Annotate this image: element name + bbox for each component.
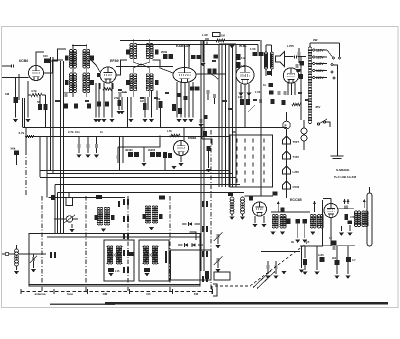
svg-text:56k: 56k <box>11 147 16 151</box>
svg-text:1n: 1n <box>100 130 103 134</box>
svg-text:P+C L8B AA-FM: P+C L8B AA-FM <box>334 175 357 179</box>
svg-text:140V: 140V <box>316 62 325 66</box>
svg-text:L.08: L.08 <box>202 33 208 37</box>
svg-text:1M: 1M <box>5 92 10 96</box>
svg-text:110V: 110V <box>316 49 324 53</box>
svg-text:S-M02HE: S-M02HE <box>336 168 349 172</box>
svg-text:2k2: 2k2 <box>332 257 337 260</box>
svg-text:1M: 1M <box>140 99 144 103</box>
svg-text:2.7k: 2.7k <box>68 130 74 134</box>
svg-text:L7b: L7b <box>167 129 172 133</box>
svg-text:27k: 27k <box>114 96 119 100</box>
svg-text:1k8: 1k8 <box>122 90 127 94</box>
svg-text:C500: C500 <box>293 185 300 189</box>
svg-text:ECC85: ECC85 <box>290 198 302 202</box>
svg-text:FM: FM <box>194 292 199 296</box>
svg-text:200k: 200k <box>161 50 168 54</box>
svg-text:4.7k: 4.7k <box>31 89 37 93</box>
svg-text:2k200: 2k200 <box>148 148 156 152</box>
svg-text:1.50: 1.50 <box>250 47 256 51</box>
svg-text:10n: 10n <box>75 130 80 134</box>
svg-text:L250: L250 <box>293 170 300 174</box>
svg-text:2.7k: 2.7k <box>19 131 25 135</box>
svg-text:OM: OM <box>103 292 108 296</box>
svg-text:45V: 45V <box>315 105 320 109</box>
svg-text:antenna: antenna <box>34 292 45 296</box>
svg-text:100: 100 <box>43 54 48 58</box>
svg-text:EF89: EF89 <box>110 59 119 63</box>
svg-text:125V: 125V <box>316 56 325 60</box>
svg-text:1u50: 1u50 <box>318 254 324 257</box>
svg-text:220V: 220V <box>316 76 325 80</box>
svg-text:4R100: 4R100 <box>125 148 133 152</box>
svg-text:4.7: 4.7 <box>352 259 356 262</box>
svg-text:T150: T150 <box>293 155 300 159</box>
svg-text:160V: 160V <box>316 69 325 73</box>
svg-text:T50T: T50T <box>293 140 300 144</box>
svg-text:120: 120 <box>238 95 243 99</box>
svg-text:fono: fono <box>67 292 73 296</box>
svg-text:1k: 1k <box>263 83 266 87</box>
svg-text:6CB6: 6CB6 <box>19 59 28 63</box>
svg-text:L15: L15 <box>115 269 120 273</box>
svg-text:1.50: 1.50 <box>255 90 261 94</box>
svg-text:0b: 0b <box>291 240 294 244</box>
svg-text:2W: 2W <box>313 38 318 42</box>
svg-text:L705: L705 <box>287 44 294 48</box>
svg-text:C5: C5 <box>306 240 310 244</box>
